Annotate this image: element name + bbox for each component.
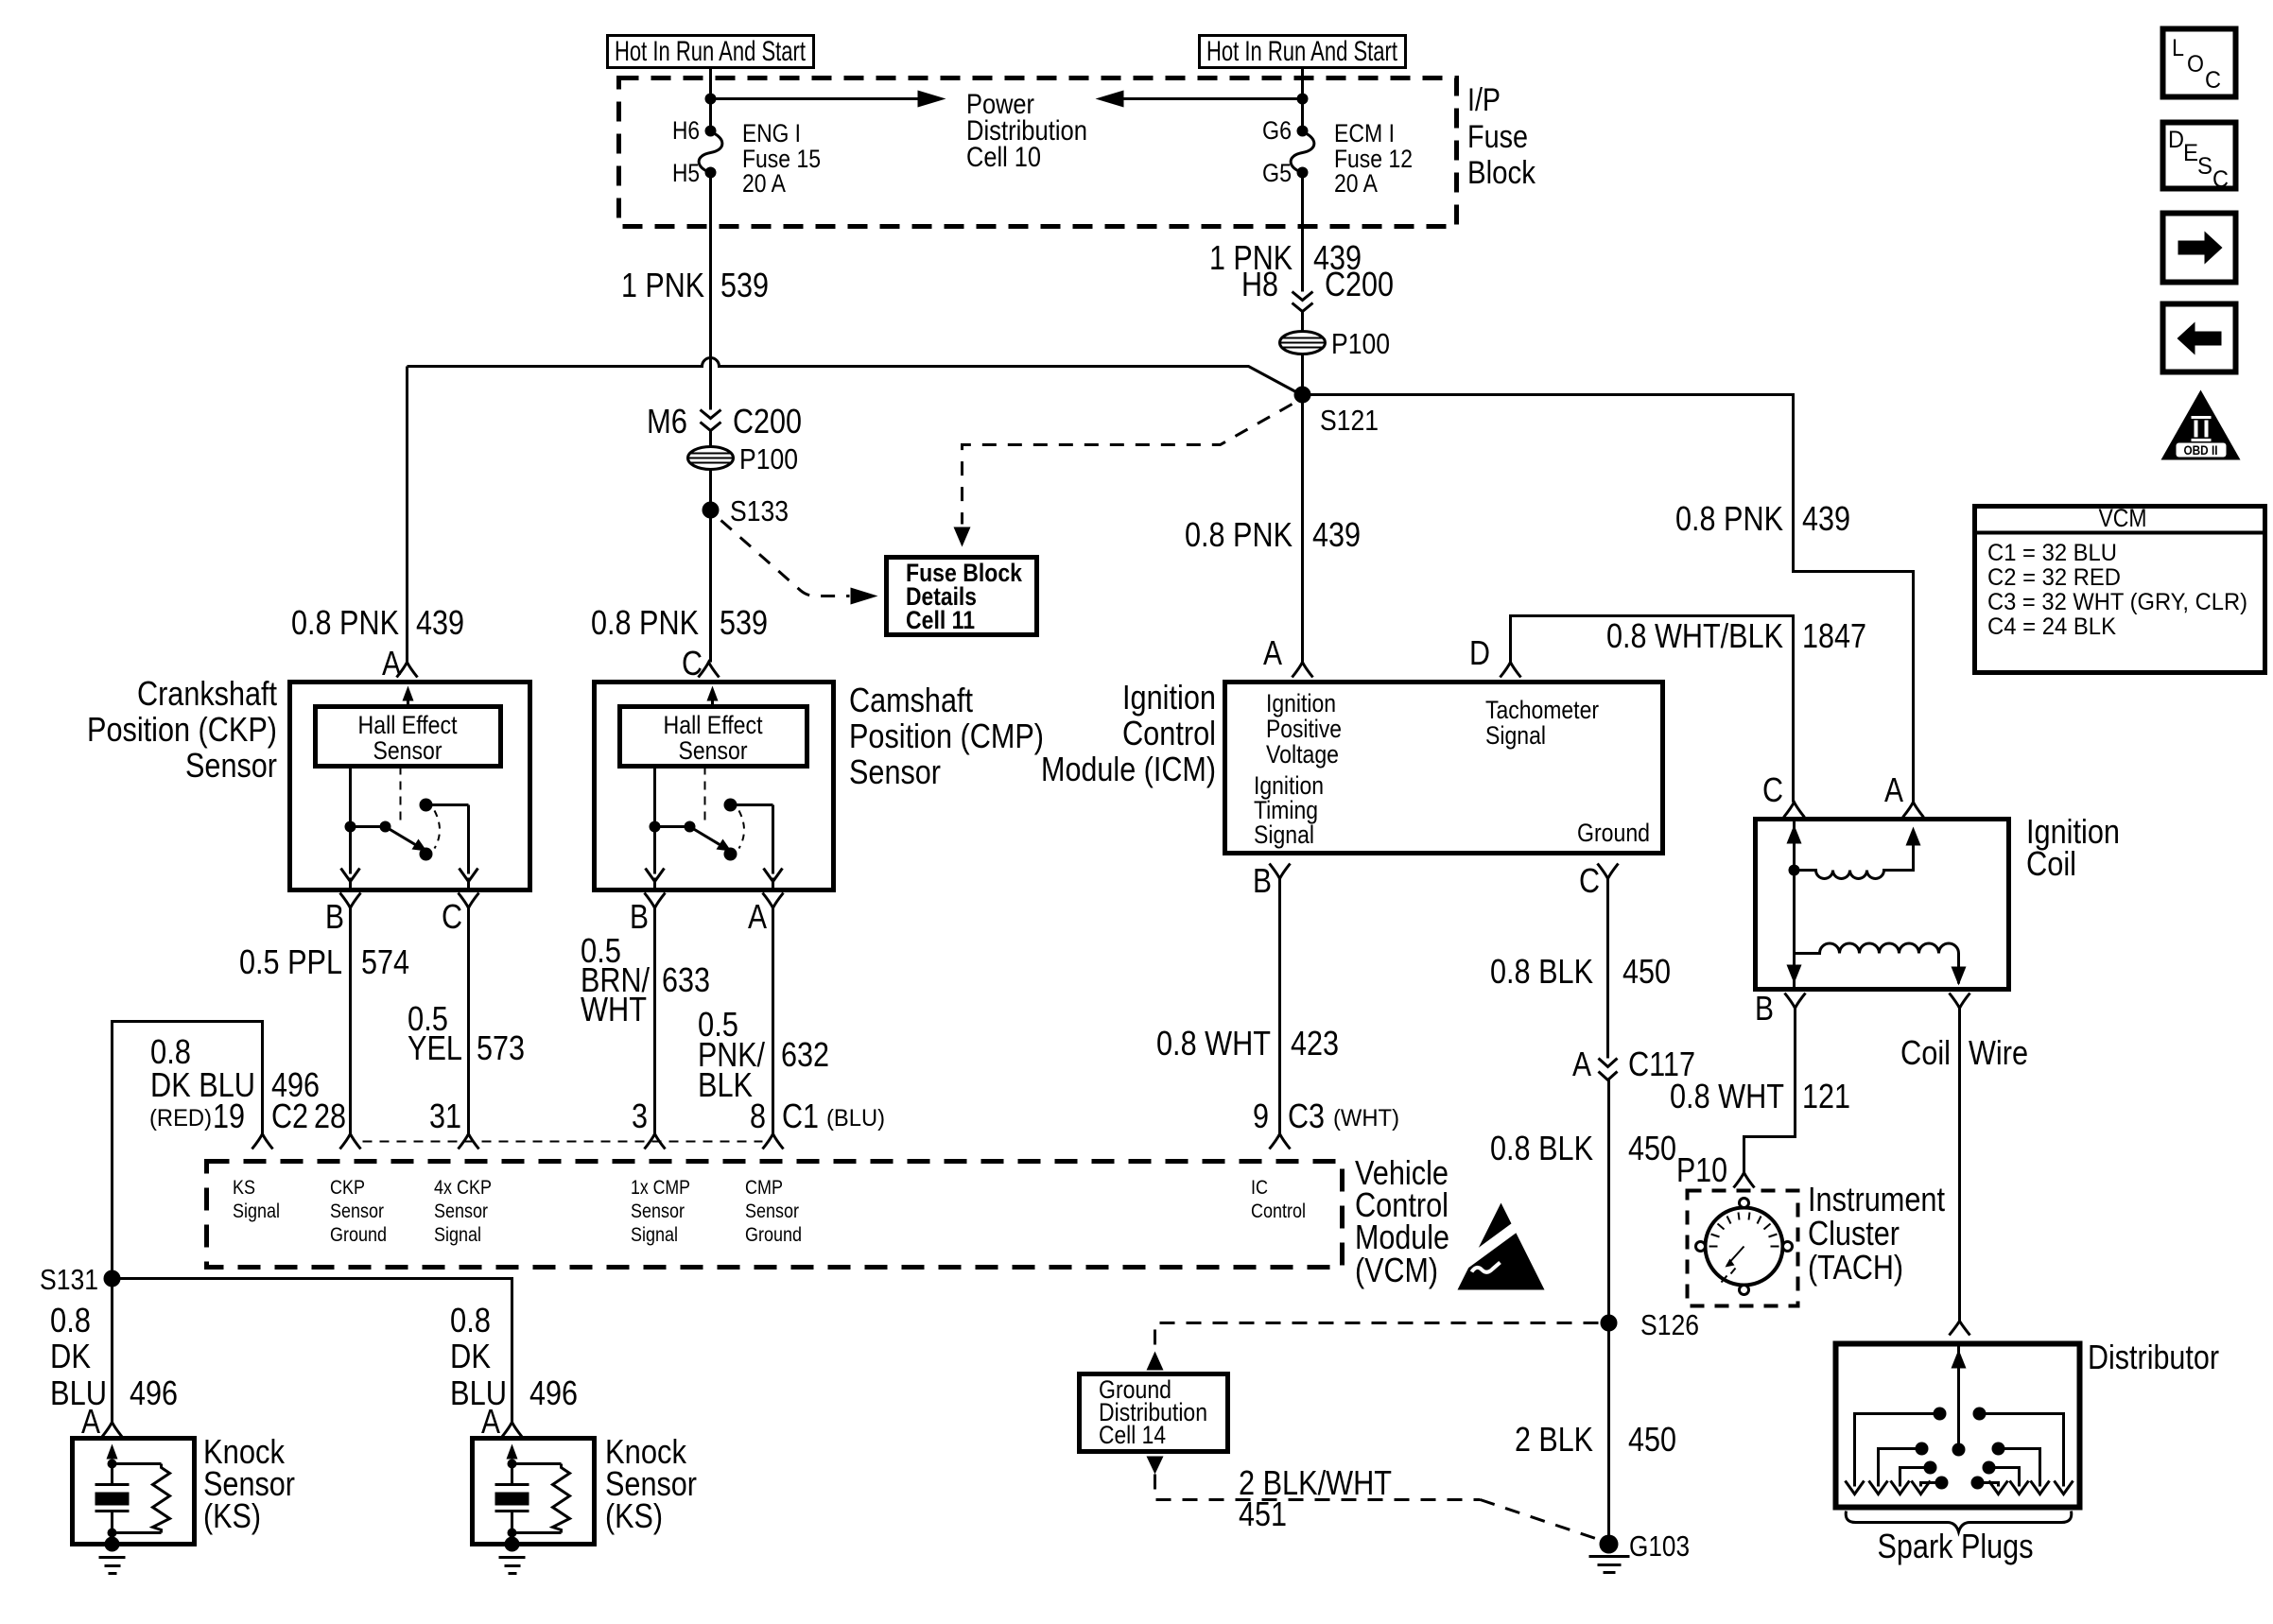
svg-text:Fuse: Fuse: [1467, 119, 1528, 155]
svg-text:H5: H5: [672, 159, 700, 187]
svg-text:0.5 PPL: 0.5 PPL: [239, 942, 342, 981]
VCM connector legend table: [1975, 504, 2265, 673]
svg-text:(VCM): (VCM): [1355, 1251, 1438, 1289]
svg-text:Hall Effect: Hall Effect: [358, 711, 458, 739]
svg-text:C: C: [2205, 67, 2221, 94]
label Coil Wire: [1900, 1033, 2028, 1072]
svg-text:C200: C200: [733, 402, 802, 441]
spark plug wire left 1: [1846, 1408, 1947, 1494]
svg-text:BLK: BLK: [698, 1065, 753, 1104]
svg-text:Cell 10: Cell 10: [966, 142, 1041, 173]
wire hot1 to fuse ENG I: [709, 68, 712, 131]
distributor inlet connector: [1950, 1322, 1970, 1336]
dashed control line (CMP): [704, 767, 706, 821]
svg-text:121: 121: [1802, 1077, 1850, 1115]
label Ignition Coil: [2026, 812, 2120, 883]
svg-text:496: 496: [271, 1065, 320, 1104]
label 0.8 WHT/BLK 1847: [1606, 616, 1866, 655]
svg-text:S126: S126: [1640, 1308, 1699, 1341]
pin D connector into ICM: [1469, 633, 1521, 678]
pin 8 connector: [763, 1134, 784, 1149]
arrow feed into Hall sensor (CKP): [403, 686, 414, 707]
pin B connector below CKP: [325, 893, 361, 1134]
svg-text:633: 633: [662, 960, 710, 999]
knock sensor box (left): [73, 1439, 195, 1574]
I/P Fuse Block dashed boundary: [619, 78, 1457, 227]
wire 1 PNK 439 down from fuse: [1301, 173, 1304, 292]
svg-text:ECM I: ECM I: [1334, 119, 1395, 147]
pin A connector into ICM: [1263, 633, 1313, 678]
svg-text:P100: P100: [739, 442, 798, 475]
svg-text:Sensor: Sensor: [679, 736, 748, 765]
wire below C200 right: [1301, 312, 1304, 333]
wire S121 to coil A (upper run): [1303, 395, 1914, 803]
fuse ENG I Fuse 15 20 A: [672, 116, 821, 198]
svg-text:20 A: 20 A: [1334, 169, 1378, 198]
svg-text:451: 451: [1239, 1494, 1287, 1533]
svg-text:KS: KS: [233, 1177, 255, 1199]
svg-text:0.8: 0.8: [450, 1301, 491, 1339]
splice S133: [703, 494, 789, 527]
dashed reference Ground Distribution to G103 (2 BLK/WHT 451): [1147, 1457, 1602, 1541]
wire S131 to left knock sensor: [111, 1279, 113, 1423]
svg-text:C: C: [1762, 770, 1783, 809]
svg-text:0.8 WHT: 0.8 WHT: [1156, 1024, 1271, 1063]
svg-text:0.8 PNK: 0.8 PNK: [1675, 499, 1783, 538]
SECTION: CMP sensor: [581, 644, 1044, 1134]
icon DESC button: [2163, 123, 2236, 194]
svg-text:0.8 WHT: 0.8 WHT: [1670, 1077, 1784, 1115]
pin A connector right KS: [481, 1402, 523, 1441]
pin B connector below CMP: [630, 893, 666, 1134]
svg-text:S: S: [2197, 153, 2212, 180]
dashed reference S121 to Fuse Block Details: [954, 405, 1293, 547]
wire KS signal from VCM pin 19: [113, 1022, 263, 1270]
fuse ECM I Fuse 12 20 A: [1262, 116, 1413, 198]
CKP sensor box: [290, 682, 530, 890]
svg-text:450: 450: [1628, 1420, 1676, 1459]
label Camshaft Position (CMP) Sensor: [849, 681, 1044, 791]
svg-text:(TACH): (TACH): [1808, 1248, 1903, 1287]
svg-text:A: A: [1263, 633, 1282, 672]
svg-text:539: 539: [720, 266, 769, 304]
instrument cluster dashed boundary: [1688, 1191, 1798, 1306]
svg-text:C200: C200: [1325, 265, 1394, 303]
svg-text:0.8: 0.8: [50, 1301, 91, 1339]
svg-text:G5: G5: [1262, 159, 1292, 187]
coil wire connector below coil: [1950, 993, 1970, 1009]
wire S131 to right knock sensor: [113, 1279, 512, 1423]
spark plug wire right 1: [1973, 1408, 2073, 1494]
svg-text:A: A: [1884, 770, 1903, 809]
svg-text:S133: S133: [730, 494, 789, 527]
svg-text:DK: DK: [450, 1337, 491, 1375]
label Knock Sensor (KS) (left): [203, 1432, 295, 1535]
svg-text:C3: C3: [1288, 1097, 1325, 1135]
ICM internal labels: [1254, 689, 1650, 849]
node Ground Distribution Cell 14: [1080, 1374, 1228, 1452]
connector row dashed link: [363, 1141, 763, 1143]
svg-text:Cluster: Cluster: [1808, 1214, 1900, 1253]
svg-text:Signal: Signal: [434, 1224, 481, 1246]
SECTION: VCM connector strip: [149, 1097, 1545, 1290]
svg-text:20 A: 20 A: [742, 169, 786, 198]
svg-text:Signal: Signal: [1485, 721, 1546, 750]
svg-text:P100: P100: [1331, 327, 1390, 360]
svg-text:(RED): (RED): [149, 1105, 212, 1132]
label Ignition Control Module (ICM): [1041, 678, 1216, 788]
svg-text:CKP: CKP: [330, 1177, 365, 1199]
grommet P100 (left): [688, 442, 799, 475]
svg-text:(KS): (KS): [605, 1496, 663, 1535]
pin C connector into coil: [1762, 770, 1805, 818]
wire arrow to Power Distribution (right): [1096, 91, 1303, 108]
label 2 BLK 450: [1515, 1420, 1676, 1459]
wire coil B to P10: [1744, 1007, 1796, 1173]
svg-text:Ground: Ground: [330, 1224, 387, 1246]
wire 1847 from pin D to coil C: [1511, 616, 1794, 803]
coil primary winding: [1787, 820, 1921, 990]
svg-text:0.8 PNK: 0.8 PNK: [591, 603, 699, 642]
VCM internal pin function labels: [233, 1177, 1306, 1246]
connector M6 C200 (double chevron): [647, 402, 802, 441]
svg-text:C4 = 24 BLK: C4 = 24 BLK: [1987, 613, 2116, 640]
spark plug wire left 2: [1869, 1443, 1929, 1494]
label Crankshaft Position (CKP) Sensor: [87, 674, 277, 785]
ignition coil box: [1756, 820, 2009, 990]
dashed reference S126 to Ground Distribution: [1147, 1323, 1599, 1371]
svg-text:2 BLK: 2 BLK: [1515, 1420, 1593, 1459]
svg-text:A: A: [748, 897, 767, 936]
SECTION: coil / cluster / distributor: [1670, 770, 2219, 1565]
svg-text:L: L: [2172, 35, 2184, 61]
icon back arrow button: [2163, 304, 2236, 372]
dashed control line (CKP): [400, 767, 402, 821]
svg-text:I/P: I/P: [1467, 82, 1501, 118]
svg-text:450: 450: [1622, 952, 1671, 991]
svg-text:Sensor: Sensor: [631, 1201, 685, 1222]
svg-text:Signal: Signal: [233, 1201, 280, 1222]
pin 28 connector: [340, 1134, 361, 1149]
pin C connector below ICM: [1579, 861, 1619, 1059]
svg-text:Sensor: Sensor: [330, 1201, 384, 1222]
CMP sensor box: [595, 682, 834, 890]
svg-text:Positive: Positive: [1266, 715, 1342, 743]
pin P10 connector into cluster: [1676, 1150, 1755, 1189]
svg-text:OBD II: OBD II: [2184, 442, 2218, 458]
label 1 PNK 439: [1209, 238, 1362, 277]
pin B connector below coil: [1755, 989, 1806, 1028]
svg-text:D: D: [2168, 127, 2184, 153]
svg-text:Sensor: Sensor: [434, 1201, 488, 1222]
svg-text:S121: S121: [1320, 404, 1379, 437]
switch contacts (CKP): [345, 799, 441, 861]
label 0.5 YEL 573: [408, 999, 525, 1067]
svg-text:H6: H6: [672, 116, 700, 145]
SECTION: ICM module: [1041, 616, 1866, 1573]
svg-text:Signal: Signal: [1254, 821, 1314, 849]
svg-text:Position (CMP): Position (CMP): [849, 717, 1044, 755]
svg-text:450: 450: [1628, 1129, 1676, 1167]
ICM box: [1225, 682, 1663, 854]
wire below C200 left: [709, 431, 712, 448]
pin 19 C2 connector: [252, 1134, 273, 1149]
svg-text:E: E: [2183, 140, 2198, 166]
svg-text:Voltage: Voltage: [1266, 740, 1339, 769]
svg-text:539: 539: [720, 603, 768, 642]
SECTION: knock sensors: [40, 1022, 697, 1574]
wire P100 to CMP pin C: [709, 470, 712, 663]
svg-text:(WHT): (WHT): [1333, 1105, 1399, 1132]
label 0.8 WHT 121: [1670, 1077, 1850, 1115]
pin A connector into CKP: [382, 644, 418, 682]
junction on left feed: [705, 94, 717, 105]
coil wire to distributor: [1958, 1007, 1961, 1322]
wire C117 down to G103: [1607, 1080, 1610, 1545]
svg-text:(KS): (KS): [203, 1496, 261, 1535]
svg-text:YEL: YEL: [408, 1028, 462, 1067]
svg-text:496: 496: [130, 1373, 178, 1412]
svg-text:A: A: [481, 1402, 500, 1441]
svg-text:Ignition: Ignition: [1122, 678, 1216, 717]
ESD sensitivity symbol: [1446, 1203, 1545, 1290]
Hall Effect Sensor box (CKP): [316, 707, 501, 767]
svg-text:IC: IC: [1251, 1177, 1268, 1199]
svg-text:439: 439: [1802, 499, 1850, 538]
svg-text:0.8 BLK: 0.8 BLK: [1490, 952, 1593, 991]
pin B connector below ICM: [1253, 861, 1291, 1134]
svg-text:0.8 PNK: 0.8 PNK: [1185, 515, 1293, 554]
svg-text:31: 31: [429, 1097, 461, 1135]
SECTION: CKP sensor: [87, 644, 530, 1134]
svg-text:B: B: [630, 897, 649, 936]
splice S121: [1294, 387, 1379, 438]
switch contacts (CMP): [650, 799, 745, 861]
svg-text:0.8 BLK: 0.8 BLK: [1490, 1129, 1593, 1167]
dashed reference S133 to Fuse Block Details: [721, 521, 878, 605]
svg-text:9: 9: [1253, 1097, 1269, 1135]
svg-text:Control: Control: [1122, 714, 1216, 752]
coil secondary winding: [1795, 943, 1967, 986]
node Hot In Run And Start (left): [608, 36, 814, 68]
svg-text:ENG I: ENG I: [742, 119, 801, 147]
svg-text:3: 3: [632, 1097, 648, 1135]
icon forward arrow button: [2163, 214, 2236, 283]
wire arrow to Power Distribution (left): [711, 91, 946, 108]
label 0.5 PPL 574: [239, 942, 409, 981]
svg-text:C: C: [442, 897, 462, 936]
svg-text:Hot In Run And Start: Hot In Run And Start: [1206, 36, 1397, 67]
svg-text:Coil: Coil: [2026, 844, 2076, 883]
svg-text:Instrument: Instrument: [1808, 1180, 1945, 1218]
grommet P100 (right): [1280, 327, 1391, 360]
svg-text:0.8 WHT/BLK: 0.8 WHT/BLK: [1606, 616, 1783, 655]
ground G103: [1589, 1529, 1691, 1573]
distributor rotor feed: [1952, 1347, 1967, 1457]
pin 3 connector: [645, 1134, 666, 1149]
svg-text:C1 = 32 BLU: C1 = 32 BLU: [1987, 540, 2117, 566]
svg-text:Distributor: Distributor: [2088, 1338, 2219, 1376]
svg-text:Camshaft: Camshaft: [849, 681, 973, 719]
svg-text:Sensor: Sensor: [373, 736, 442, 765]
svg-text:A: A: [81, 1402, 100, 1441]
svg-text:Crankshaft: Crankshaft: [137, 674, 277, 713]
pin 31 connector: [459, 1134, 479, 1149]
label Knock Sensor (KS) (right): [605, 1432, 697, 1535]
wire P100 to ICM pin A: [1301, 354, 1304, 663]
pin A connector into coil: [1884, 770, 1924, 818]
svg-text:632: 632: [781, 1035, 829, 1074]
label 0.8 BLK 450 (lower): [1490, 1129, 1676, 1167]
svg-text:Cell 11: Cell 11: [906, 606, 975, 634]
svg-text:Hot In Run And Start: Hot In Run And Start: [615, 36, 806, 67]
pin C connector below CKP: [442, 893, 479, 1134]
svg-text:DK: DK: [50, 1337, 91, 1375]
knock sensor box (right): [473, 1439, 595, 1574]
spark plug wire left 4: [1912, 1477, 1949, 1494]
spark plug wire right 3: [1983, 1461, 2029, 1494]
pin A connector below CMP: [748, 893, 784, 1134]
svg-text:1x CMP: 1x CMP: [631, 1177, 690, 1199]
wire Hall to pin B (CMP): [646, 767, 665, 890]
svg-text:Sensor: Sensor: [185, 746, 277, 785]
SECTION: power feed top: [291, 36, 1914, 803]
arrow feed into Hall sensor (CMP): [707, 686, 719, 707]
label 0.5 PNK/BLK 632: [698, 1005, 829, 1104]
svg-text:Block: Block: [1467, 155, 1536, 191]
label 0.8 BLK 450 (upper): [1490, 952, 1671, 991]
svg-text:1 PNK: 1 PNK: [621, 266, 704, 304]
svg-text:Module (ICM): Module (ICM): [1041, 750, 1216, 788]
svg-text:439: 439: [1312, 515, 1361, 554]
svg-text:B: B: [1253, 861, 1272, 900]
svg-text:P10: P10: [1676, 1150, 1727, 1189]
svg-text:Spark Plugs: Spark Plugs: [1878, 1527, 2034, 1565]
svg-text:G103: G103: [1629, 1529, 1690, 1563]
label Instrument Cluster (TACH): [1808, 1180, 1945, 1287]
svg-text:WHT: WHT: [581, 990, 647, 1028]
svg-text:C1: C1: [782, 1097, 819, 1135]
wire contact to pin C (CKP): [426, 805, 478, 890]
svg-text:439: 439: [416, 603, 464, 642]
wire branch main horizontal 0.8 PNK 439 with hop: [408, 358, 1296, 392]
connector A C117 (double chevron): [1572, 1045, 1695, 1083]
svg-text:Ignition: Ignition: [1266, 689, 1336, 717]
svg-text:Cell 14: Cell 14: [1099, 1421, 1166, 1449]
svg-text:Ground: Ground: [745, 1224, 802, 1246]
svg-text:4x CKP: 4x CKP: [434, 1177, 492, 1199]
svg-text:Tachometer: Tachometer: [1485, 696, 1599, 724]
svg-text:(BLU): (BLU): [826, 1105, 885, 1132]
VCM dashed boundary: [207, 1162, 1343, 1268]
svg-text:VCM: VCM: [2099, 504, 2147, 532]
label 0.8 PNK 439 (coil branch): [1675, 499, 1850, 538]
pin 19 C2 labels: [149, 1097, 346, 1135]
svg-text:O: O: [2187, 51, 2204, 78]
svg-text:Ground: Ground: [1577, 819, 1650, 847]
spark plug wire right 2: [1992, 1443, 2050, 1494]
label 0.8 DK BLU 496 (left): [50, 1301, 178, 1412]
spark plug wire left 3: [1891, 1461, 1937, 1494]
pin A connector left KS: [81, 1402, 123, 1441]
Hall Effect Sensor box (CMP): [620, 707, 807, 767]
svg-text:496: 496: [529, 1373, 578, 1412]
svg-text:Sensor: Sensor: [745, 1201, 799, 1222]
svg-text:S131: S131: [40, 1263, 98, 1296]
label 0.8 PNK 539 (CMP feed): [591, 603, 768, 642]
svg-text:Control: Control: [1251, 1201, 1306, 1222]
tachometer gauge: [1696, 1199, 1793, 1295]
label I/P Fuse Block: [1467, 82, 1536, 191]
svg-text:Coil: Coil: [1900, 1033, 1951, 1072]
distributor box: [1836, 1344, 2080, 1508]
wire branch down to CKP pin A: [406, 367, 408, 663]
pin 8 C1 (BLU) labels: [750, 1097, 885, 1135]
svg-text:M6: M6: [647, 402, 687, 441]
svg-text:B: B: [1755, 989, 1774, 1028]
icon LOC button: [2163, 29, 2236, 97]
splice S131: [40, 1263, 121, 1296]
svg-text:C: C: [1579, 861, 1600, 900]
wire hot2 to fuse ECM I: [1301, 68, 1304, 131]
wire contact to pin A (CMP): [731, 805, 783, 890]
svg-text:8: 8: [750, 1097, 766, 1135]
label 0.8 DK BLU (RED) 496 (upper): [150, 1032, 320, 1104]
splice S126: [1601, 1308, 1700, 1341]
svg-text:H8: H8: [1241, 265, 1278, 303]
svg-text:G6: G6: [1262, 116, 1292, 145]
label 0.8 PNK 439 (ICM branch): [1185, 515, 1361, 554]
svg-text:574: 574: [361, 942, 409, 981]
node Fuse Block Details Cell 11: [887, 558, 1037, 635]
svg-text:B: B: [325, 897, 344, 936]
wire Hall to pin B (CKP): [341, 767, 360, 890]
svg-text:Signal: Signal: [631, 1224, 678, 1246]
label 0.8 WHT 423: [1156, 1024, 1339, 1063]
svg-text:Wire: Wire: [1969, 1033, 2028, 1072]
svg-text:573: 573: [477, 1028, 525, 1067]
svg-text:Sensor: Sensor: [849, 752, 941, 791]
svg-text:C3 = 32 WHT (GRY, CLR): C3 = 32 WHT (GRY, CLR): [1987, 589, 2247, 615]
svg-text:DK BLU: DK BLU: [150, 1065, 255, 1104]
pin C connector into CMP: [682, 644, 720, 682]
spark plugs brace: [1846, 1512, 2072, 1532]
svg-text:C: C: [2212, 166, 2229, 193]
svg-text:Position (CKP): Position (CKP): [87, 710, 277, 749]
icon OBD II triangle: [2161, 390, 2241, 460]
svg-text:Hall Effect: Hall Effect: [664, 711, 763, 739]
label 0.8 DK BLU 496 (right): [450, 1301, 578, 1412]
label 0.5 BRN/WHT 633: [581, 931, 710, 1028]
label Power Distribution Cell 10: [966, 89, 1087, 173]
connector H8 C200 (double chevron): [1241, 265, 1394, 312]
label 0.8 PNK 439 (CKP feed): [291, 603, 464, 642]
svg-text:C2 = 32 RED: C2 = 32 RED: [1987, 564, 2121, 591]
wire 1 PNK 539 down from fuse: [709, 173, 712, 410]
svg-text:CMP: CMP: [745, 1177, 783, 1199]
node Hot In Run And Start (right): [1200, 36, 1406, 68]
svg-text:423: 423: [1291, 1024, 1339, 1063]
svg-text:D: D: [1469, 633, 1490, 672]
svg-text:A: A: [1572, 1045, 1591, 1083]
svg-text:0.8 PNK: 0.8 PNK: [291, 603, 399, 642]
svg-text:1847: 1847: [1802, 616, 1866, 655]
spark plug wire right 4: [1971, 1477, 2008, 1494]
pin 9 C3 (WHT) connector into VCM: [1253, 1097, 1399, 1149]
label Vehicle Control Module (VCM): [1355, 1153, 1449, 1289]
junction on right feed: [1297, 94, 1309, 105]
label 1 PNK 539: [621, 266, 769, 304]
